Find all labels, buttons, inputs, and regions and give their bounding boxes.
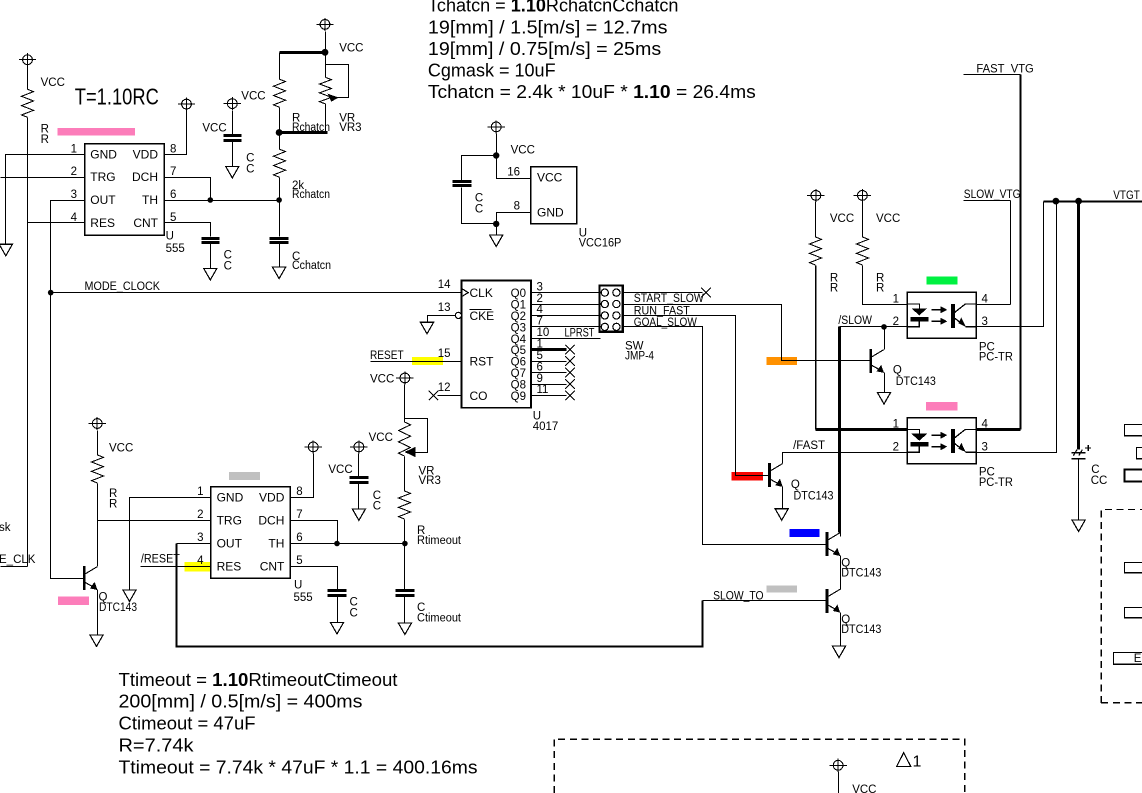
wire U2 Q8 stub (532, 384, 567, 386)
no-connect X at Q7 (565, 368, 575, 378)
svg-text:10: 10 (537, 327, 550, 339)
svg-text:3: 3 (197, 532, 203, 544)
wire 555#2 pin2 TRG (98, 520, 211, 522)
svg-text:GND: GND (217, 491, 244, 505)
svg-text:TH: TH (142, 193, 158, 207)
svg-text:DTC143: DTC143 (841, 624, 881, 636)
svg-text:8: 8 (514, 201, 520, 213)
svg-text:RES: RES (217, 559, 242, 573)
wire C3 to ground (210, 244, 212, 269)
no-connect X at START_SLOW (701, 288, 711, 298)
svg-text:VCC: VCC (109, 442, 133, 454)
resistor R2 (R Rchatcn) (274, 79, 286, 107)
svg-text:R: R (830, 282, 838, 294)
svg-text:Q: Q (791, 479, 800, 491)
svg-text:4: 4 (71, 212, 78, 224)
transistor Q2 DTC143 (/SLOW) (871, 349, 884, 373)
node GOAL_SLOW net to Q3 base (623, 316, 770, 476)
power VCC symbol (U4 VDD) (305, 440, 322, 453)
wire VCC to R1 (27, 67, 29, 90)
ground below Q5 (832, 646, 845, 658)
node VCC-R-VR junction (322, 49, 329, 56)
highlight marker orange on RUN_FAST corner (766, 357, 797, 365)
svg-text:C: C (475, 204, 483, 216)
wire VCC to junction (496, 134, 498, 156)
wire FAST_VTG down to opto2 pin4 (thick) (1020, 75, 1022, 430)
wire C2 to ground (232, 142, 234, 167)
wire Q1 collector (97, 521, 99, 567)
svg-text:VCC: VCC (369, 432, 393, 444)
svg-text:4: 4 (197, 555, 204, 567)
wire VCC down to junction (325, 32, 327, 53)
transistor Q5 DTC143 (cascode bottom) (827, 589, 840, 613)
svg-text:16: 16 (507, 167, 520, 179)
svg-text:555: 555 (166, 243, 185, 255)
svg-text:3: 3 (71, 189, 77, 201)
svg-text:14: 14 (438, 279, 451, 291)
svg-text:LPRST: LPRST (565, 327, 595, 339)
wire TH net down to C4 (279, 201, 281, 237)
svg-text:/SLOW: /SLOW (838, 315, 872, 327)
svg-text:4: 4 (537, 304, 544, 316)
wire R4 bottom to TH net (279, 178, 281, 201)
svg-text:3: 3 (982, 442, 988, 454)
node /RESET stub to RES pin (141, 566, 211, 568)
wire C7 to ground (404, 597, 406, 624)
capacitor C8 electrolytic (C CC) (1072, 445, 1092, 459)
ground below Q3 (775, 509, 788, 521)
svg-text:T=1.10RC: T=1.10RC (75, 84, 159, 110)
node MODE_CLOCK junction (48, 290, 54, 296)
power VCC symbol (C5) (350, 440, 367, 453)
capacitor C6 (C C) (328, 591, 347, 596)
svg-text:C: C (350, 608, 358, 620)
svg-text:Ttimeout = 7.74k * 47uF * 1.1: Ttimeout = 7.74k * 47uF * 1.1 = 400.16ms (119, 757, 478, 777)
svg-text:Q: Q (893, 365, 902, 377)
port box right 6 with E label (1114, 653, 1142, 665)
node E_CLK stub (1, 566, 28, 568)
wire R2/VR3 bottoms to junction (thick) (279, 108, 281, 133)
dashed region box right (1101, 510, 1142, 703)
svg-text:VCC: VCC (328, 464, 352, 476)
svg-text:2: 2 (893, 442, 899, 454)
wire VR2 to R7 (404, 457, 406, 492)
no-connect X at CO (429, 391, 439, 401)
wire TH junction down to C7 (404, 544, 406, 590)
node VCC16P gnd junction (493, 221, 499, 227)
svg-text:6: 6 (170, 189, 176, 201)
svg-text:Q1: Q1 (511, 300, 526, 312)
wire MODE_CLOCK to 4017 CLK (51, 292, 462, 294)
svg-text:VCC: VCC (830, 213, 854, 225)
svg-text:1: 1 (197, 486, 203, 498)
svg-text:1: 1 (913, 754, 922, 771)
wire U2 Q9 stub (532, 395, 567, 397)
wire VCC to R8 (815, 202, 817, 238)
ground below C3 (204, 268, 217, 280)
wire Q3 emitter to ground (782, 487, 784, 509)
svg-text:CNT: CNT (133, 216, 158, 230)
node R-VR-2k junction (276, 129, 283, 136)
ground below C2 (226, 166, 239, 178)
port box right 4 (1125, 563, 1142, 573)
connector SW JMP-4 body (600, 286, 623, 332)
wire 555#1 pin1 GND to ground (6, 155, 85, 245)
capacitor C4 (C Cchatcn) (270, 239, 289, 243)
highlight marker pink bar top-left (58, 128, 136, 136)
node /SLOW net to opto1 pin2 (840, 326, 908, 328)
ground below C4 (273, 267, 286, 279)
svg-text:R: R (109, 499, 117, 511)
svg-text:Tchatcn = 2.4k * 10uF * 1.10 =: Tchatcn = 2.4k * 10uF * 1.10 = 26.4ms (428, 82, 756, 102)
svg-text:R=7.74k: R=7.74k (119, 736, 195, 756)
power VCC symbol (VR3/Rtimeout) (396, 371, 413, 384)
svg-text:Cchatcn: Cchatcn (292, 260, 331, 272)
ground below C8 (1072, 520, 1085, 532)
wire VCC to C5 (358, 454, 360, 477)
node VTGT junction 2 (1075, 198, 1082, 205)
svg-text:Q3: Q3 (511, 322, 526, 334)
svg-text:JMP-4: JMP-4 (625, 351, 655, 363)
ground at CKE (420, 322, 433, 334)
wire Q4 collector (840, 533, 842, 537)
svg-text:VCC: VCC (876, 213, 900, 225)
node /FAST net to opto2 pin2 (783, 453, 908, 464)
svg-text:U: U (166, 230, 174, 242)
svg-text:RES: RES (90, 216, 115, 230)
transistor Q4 DTC143 (cascode top) (827, 532, 840, 556)
wire U2 Q7 stub (532, 372, 567, 374)
node TH junction at 2k (276, 197, 282, 203)
U2 CKE label with overline and bubble (455, 312, 461, 318)
timer U1 555 IC body (85, 144, 165, 236)
wire C5 to ground (358, 484, 360, 509)
svg-text:U: U (294, 580, 302, 592)
svg-text:19[mm] / 0.75[m/s] = 25ms: 19[mm] / 0.75[m/s] = 25ms (428, 39, 661, 59)
svg-text:Q0: Q0 (511, 288, 526, 300)
wire junction to C1 top (462, 156, 497, 181)
ground below Q1 (90, 635, 103, 647)
svg-text:VDD: VDD (133, 147, 159, 161)
wire Q2 collector to /SLOW (884, 327, 886, 350)
wire VCC to R9 (862, 202, 864, 238)
wire opto2 pin3 up to VTGT (977, 202, 1057, 453)
U3 VCC16P IC body (531, 167, 577, 224)
svg-text:C: C (373, 501, 381, 513)
optocoupler PC2 PC-TR (907, 418, 976, 464)
wire VCC16P pin16 (497, 156, 531, 179)
wire 555#1 pin6 TH net (165, 200, 280, 202)
svg-text:C: C (224, 261, 232, 273)
svg-text:Rchatcn: Rchatcn (292, 189, 330, 201)
wire VCC to VR (404, 385, 406, 423)
wire R1 bottom to RES pin and E_CLK stub (27, 118, 29, 567)
wire 555#1 pin3 OUT down to Q1 base / MODE_CLOCK (51, 201, 85, 579)
svg-text:TRG: TRG (90, 170, 115, 184)
wire Q2 emitter to ground (884, 373, 886, 393)
capacitor C1 (C C) (453, 182, 472, 186)
svg-text:CKE: CKE (470, 309, 495, 323)
svg-text:VDD: VDD (259, 491, 285, 505)
wire CO stub (438, 395, 462, 397)
svg-text:VCC: VCC (370, 373, 394, 385)
wire C4 to ground (279, 244, 281, 268)
svg-text:3: 3 (537, 281, 543, 293)
ground below C7 (398, 623, 411, 635)
power VCC symbol (R8) (807, 189, 824, 202)
node /SLOW junction at Q2 collector (881, 324, 887, 330)
svg-text:15: 15 (438, 348, 451, 360)
wire SW row4 net to Q4 base (623, 327, 827, 545)
node VTGT net (1044, 201, 1142, 203)
svg-text:555: 555 (294, 592, 313, 604)
svg-text:Ctimeout: Ctimeout (417, 613, 462, 625)
svg-text:19[mm] / 1.5[m/s] = 12.7ms: 19[mm] / 1.5[m/s] = 12.7ms (428, 17, 668, 37)
node LPRST stub at Q4 (532, 338, 601, 340)
transistor Q3 DTC143 (/FAST) (770, 463, 783, 487)
optocoupler PC1 PC-TR (907, 292, 976, 338)
wire junction to R2 top (thick) (280, 51, 326, 54)
capacitor C7 (C Ctimeout) (396, 591, 415, 596)
ground below VCC16P (490, 235, 503, 247)
svg-text:1: 1 (893, 419, 899, 431)
svg-text:PC-TR: PC-TR (979, 352, 1013, 364)
svg-text:GND: GND (537, 205, 564, 219)
resistor R8 (R R) (810, 237, 822, 265)
resistor R5 (R R) (92, 455, 104, 483)
wire 555#2 pin5 CNT (291, 567, 338, 590)
svg-text:E_CLK: E_CLK (0, 554, 36, 566)
svg-text:Rtimeout: Rtimeout (417, 535, 462, 547)
wire VR3 wiper loop (325, 53, 327, 78)
highlight marker blue at Q4 (789, 529, 819, 537)
capacitor C5 (C C) (350, 478, 369, 483)
svg-text:Q5: Q5 (511, 345, 526, 357)
svg-text:/FAST: /FAST (793, 440, 825, 452)
svg-text:1: 1 (71, 143, 77, 155)
svg-text:2: 2 (197, 509, 203, 521)
power VCC symbol (R9) (854, 189, 871, 202)
svg-text:VR3: VR3 (339, 122, 361, 134)
svg-text:VCC16P: VCC16P (579, 237, 622, 249)
wire 555#1 pin8 VDD to VCC (165, 111, 187, 155)
svg-text:GND: GND (90, 147, 117, 161)
wire 555#1 pin2 TRG to left edge (1, 177, 85, 179)
wire opto1 pin4 (977, 304, 1011, 306)
node START_SLOW net (623, 292, 703, 294)
node FAST_VTG label stub (964, 74, 1021, 76)
power VCC symbol (C2 decoupling) (224, 97, 241, 110)
wire U2 Q6 stub (532, 361, 567, 363)
svg-text:VCC: VCC (241, 91, 265, 103)
wire junction to R4 (279, 133, 281, 150)
power VCC symbol (R1 pull-up) (19, 53, 36, 66)
node VCC16P top junction (493, 152, 499, 158)
svg-text:DCH: DCH (132, 170, 158, 184)
resistor R7 (R Rtimeout) (399, 491, 411, 519)
counter U2 4017 IC body (462, 281, 531, 408)
svg-text:8: 8 (296, 486, 302, 498)
svg-text:Q8: Q8 (511, 379, 526, 391)
svg-text:Ctimeout = 47uF: Ctimeout = 47uF (119, 714, 256, 734)
wire /SLOW down to Q4 collector (thick) (838, 327, 841, 533)
node VTGT junction 1 (1053, 198, 1060, 205)
svg-text:2: 2 (71, 166, 77, 178)
no-connect X at Q5 (565, 345, 575, 355)
node RUN_FAST net to Q2 base (623, 305, 870, 361)
wire 555#1 pin4 RES (28, 222, 85, 224)
port box right 5 (1125, 608, 1142, 618)
resistor R4 (2k Rchatcn) (274, 149, 286, 177)
svg-text:R: R (41, 134, 49, 146)
svg-text:VCC: VCC (537, 170, 563, 184)
wire Q5 emitter to ground (840, 613, 842, 647)
wire U2 Q1 to SW (532, 304, 600, 306)
wire VR2 wiper loop (405, 419, 428, 453)
wire R5 bottom to TRG junction (97, 484, 99, 521)
svg-text:5: 5 (537, 350, 543, 362)
capacitor C2 (C C) (224, 136, 242, 141)
power VCC symbol (bottom box) (829, 759, 846, 772)
svg-text:/RESET: /RESET (141, 553, 180, 565)
U2 clock input symbol (462, 289, 469, 297)
highlight marker pink at Q1 (58, 596, 89, 605)
svg-text:4: 4 (982, 293, 989, 305)
node TH-Rtimeout junction (402, 541, 408, 547)
variable resistor VR3 (VR VR3) (320, 77, 332, 104)
revision mark triangle 1 (897, 753, 911, 767)
svg-text:RESET: RESET (370, 350, 404, 362)
svg-text:E: E (1134, 653, 1142, 665)
highlight marker red on GOAL_SLOW corner (732, 472, 763, 481)
svg-text:CLK: CLK (470, 286, 493, 300)
svg-text:Q2: Q2 (511, 311, 526, 323)
wire U2 Q0 to SW (532, 292, 600, 294)
svg-text:CNT: CNT (260, 559, 285, 573)
highlight marker yellow on /RESET wire (185, 562, 215, 572)
wire U2 Q5 stub (thick) (532, 348, 567, 351)
timer U4 555 IC body (211, 487, 291, 579)
resistor R9 (R R) (857, 237, 869, 265)
svg-text:VCC: VCC (852, 784, 876, 793)
svg-text:DTC143: DTC143 (841, 568, 881, 580)
ground below C5 (352, 509, 365, 521)
wire VTGT down to C8 (thick) (1077, 202, 1080, 450)
port box right 1 (1125, 425, 1142, 436)
svg-text:SLOW_VTG: SLOW_VTG (964, 189, 1021, 201)
wire 555#1 pin7 DCH (165, 178, 211, 201)
highlight marker gray above U4 (229, 472, 260, 480)
svg-text:VCC: VCC (511, 145, 535, 157)
svg-text:Q9: Q9 (511, 391, 526, 403)
power VCC symbol (Rchatcn/VR3) (316, 18, 333, 31)
wire 555#2 pin1 GND to ground (130, 498, 211, 590)
svg-text:Cgmask = 10uF: Cgmask = 10uF (428, 60, 556, 80)
svg-text:VTGT: VTGT (1113, 190, 1140, 202)
svg-text:1: 1 (893, 293, 899, 305)
wire U2 CKE to ground (428, 316, 456, 323)
wire opto1 pin3 to VTGT corner (977, 202, 1044, 327)
svg-text:TH: TH (268, 537, 284, 551)
svg-text:sk: sk (0, 522, 11, 534)
highlight marker green above PC1 (927, 277, 958, 285)
svg-text:RST: RST (470, 355, 495, 369)
dashed region box bottom (554, 739, 965, 793)
ground below C6 (330, 622, 343, 634)
svg-text:TRG: TRG (217, 514, 242, 528)
wire VCC16P pin8 (497, 213, 531, 224)
svg-text:OUT: OUT (217, 537, 243, 551)
svg-text:Q4: Q4 (511, 334, 527, 346)
svg-text:PC-TR: PC-TR (979, 477, 1013, 489)
svg-text:DTC143: DTC143 (794, 491, 834, 503)
power VCC symbol (U1 VDD) (178, 98, 195, 111)
wire R9 bottom to opto1 pin1 (863, 266, 908, 305)
svg-text:200[mm] / 0.5[m/s] = 400ms: 200[mm] / 0.5[m/s] = 400ms (119, 692, 363, 712)
svg-text:7: 7 (537, 316, 543, 328)
wire C8 to ground (1078, 459, 1080, 521)
no-connect X at Q9 (565, 391, 575, 401)
svg-text:VCC: VCC (202, 123, 226, 135)
power VCC symbol (R5) (89, 417, 106, 430)
highlight marker gray at Q5 (767, 586, 797, 593)
wire 555#2 pin6 TH net (291, 543, 405, 545)
svg-text:13: 13 (438, 302, 451, 314)
svg-text:DTC143: DTC143 (896, 376, 936, 388)
wire 555#2 pin8 VDD to VCC (291, 454, 314, 498)
wire R8 bottom to opto2 pin1 (thick) (815, 266, 817, 430)
wire U2 Q3 to SW (532, 326, 600, 328)
wire 555#2 pin7 DCH (291, 521, 338, 544)
svg-text:FAST_VTG: FAST_VTG (976, 64, 1033, 76)
node RESET stub to RST (371, 361, 462, 363)
node DCH-TH junction (208, 197, 214, 203)
svg-text:VCC: VCC (339, 43, 363, 55)
svg-text:11: 11 (537, 384, 549, 396)
svg-text:6: 6 (296, 532, 302, 544)
variable resistor VR2 (VR VR3) (399, 422, 411, 456)
svg-text:9: 9 (537, 373, 543, 385)
ground below Q2 (877, 393, 890, 405)
svg-text:Q6: Q6 (511, 357, 526, 369)
svg-text:12: 12 (438, 382, 451, 394)
power VCC symbol (VCC16P) (488, 120, 505, 133)
svg-text:DTC143: DTC143 (99, 602, 137, 614)
svg-text:CO: CO (470, 389, 488, 403)
capacitor C3 (C C) (202, 239, 220, 243)
resistor R1 (R R) (22, 89, 34, 117)
ground below 555#1 GND (0, 244, 12, 256)
svg-text:OUT: OUT (90, 193, 116, 207)
wire U2 Q2 to SW (532, 315, 600, 317)
node DCH-TH junction 555#2 (334, 541, 340, 547)
svg-text:6: 6 (537, 361, 543, 373)
svg-text:2: 2 (537, 293, 543, 305)
wire VCC to R5 (97, 431, 99, 456)
svg-text:Q7: Q7 (511, 368, 526, 380)
svg-text:CC: CC (1091, 475, 1108, 487)
no-connect X at Q8 (565, 379, 575, 389)
svg-text:VCC: VCC (41, 77, 65, 89)
svg-text:START_SLOW: START_SLOW (634, 293, 704, 305)
wire VCC down (bottom box) (838, 772, 840, 793)
wire VCC to C2 (232, 111, 234, 135)
svg-text:Ttimeout = 1.10RtimeoutCtimeou: Ttimeout = 1.10RtimeoutCtimeout (119, 670, 398, 690)
wire 555#2 pin3 OUT to SLOW_TO (177, 543, 211, 545)
transistor Q1 DTC143 (84, 566, 97, 590)
wire junction to ground (496, 224, 498, 236)
highlight marker pink above PC2 (926, 402, 957, 410)
